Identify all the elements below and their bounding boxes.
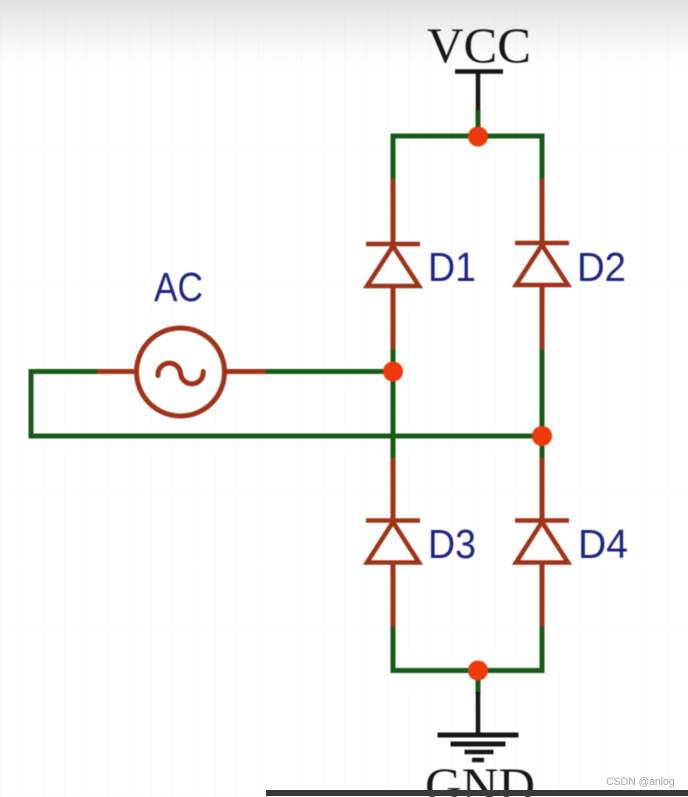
wire right mid green (540, 349, 545, 460)
wire D3 top red (391, 458, 396, 521)
junction node bottom (468, 661, 488, 681)
ground symbol (438, 735, 519, 760)
bottom dark bar (266, 790, 688, 796)
svg-text:D3: D3 (428, 521, 476, 567)
wire ground stem green (476, 670, 481, 694)
wire VCC stem black (476, 72, 481, 113)
diode D4 (515, 521, 569, 563)
svg-text:D1: D1 (428, 244, 476, 290)
wire ground stem black (476, 692, 481, 735)
watermark (606, 776, 675, 788)
wire AC right green (266, 369, 393, 374)
diode D1 (366, 244, 420, 286)
junction node right (AC return to D2/D4) (532, 426, 552, 446)
wire D1 bottom red (391, 286, 396, 351)
wire AC loop green (31, 372, 542, 437)
svg-text:D4: D4 (578, 521, 628, 567)
VCC bar (455, 69, 503, 74)
wire top rail (393, 136, 542, 181)
AC source V1 (137, 328, 225, 416)
wire bottom rail (393, 627, 542, 671)
wire AC left red (95, 369, 137, 374)
wire D4 bottom red (540, 563, 545, 630)
svg-text:AC: AC (154, 264, 203, 310)
wire D2 bottom red (540, 285, 545, 351)
wire D3 bottom red (391, 563, 396, 630)
svg-text:VCC: VCC (427, 17, 531, 73)
wire D4 top red (540, 458, 545, 520)
svg-text:D2: D2 (577, 244, 626, 290)
wire D1 top red (391, 179, 396, 244)
wire VCC stem green (476, 110, 481, 134)
wire D2 top red (540, 179, 545, 243)
diode D3 (366, 521, 420, 563)
wire left mid green (391, 349, 396, 460)
junction node left (AC to D1/D3) (383, 362, 403, 382)
diode D2 (515, 243, 569, 285)
junction node top (468, 127, 488, 147)
wire AC right red (224, 369, 268, 374)
